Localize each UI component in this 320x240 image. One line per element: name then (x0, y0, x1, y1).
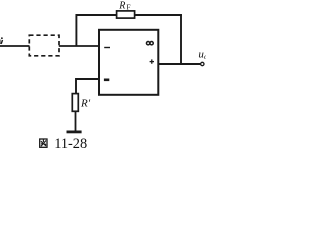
dashed box (unknown element) (29, 35, 59, 56)
wire feedback right vertical (180, 14, 182, 65)
label RF (118, 0, 130, 11)
wire feedback top left segment (76, 14, 118, 16)
wire input left segment (0, 45, 30, 47)
op-amp infinity gain symbol (146, 42, 153, 45)
op-amp inverting input minus sign (104, 47, 110, 49)
op-amp lower input bold dash (104, 79, 109, 82)
resistor R' (72, 94, 78, 112)
ground (67, 130, 82, 133)
svg-text:F: F (126, 2, 130, 11)
wire dashed box to op-amp inverting input (59, 45, 100, 47)
wire R' to ground (75, 111, 77, 131)
svg-text:R′: R′ (80, 98, 91, 110)
caption character tu (figure) (40, 139, 47, 147)
wire feedback top right segment (135, 14, 182, 16)
wire feedback left vertical (75, 14, 77, 46)
node ui input label (clipped at left edge) (1, 37, 3, 39)
label uo (198, 48, 208, 61)
svg-text:o: o (204, 52, 206, 61)
op-amp output plus sign (150, 59, 154, 63)
resistor RF (117, 11, 135, 18)
svg-text:R: R (118, 0, 125, 11)
op-amp U1 rectangle (99, 30, 158, 95)
wire output (158, 63, 200, 65)
label R' (80, 98, 91, 110)
wire non-inverting input to R' (76, 79, 100, 94)
caption text 11-28 (54, 136, 87, 152)
output terminal circle (201, 62, 204, 65)
svg-text:11-28: 11-28 (54, 136, 87, 152)
